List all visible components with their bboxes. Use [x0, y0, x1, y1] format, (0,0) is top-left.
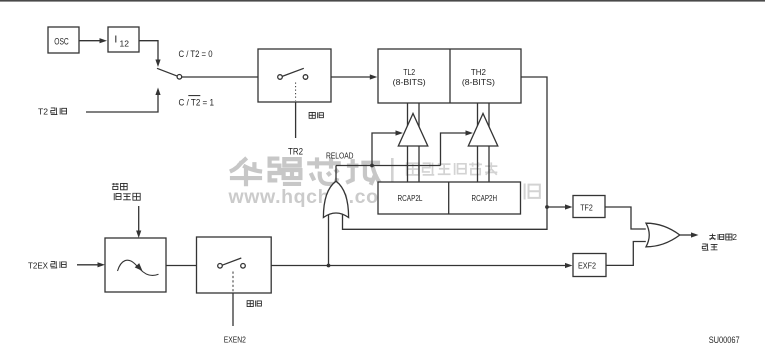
svg-text:TR2: TR2 — [288, 147, 303, 157]
svg-text:C / T2 = 0: C / T2 = 0 — [179, 49, 213, 59]
junction dot overflow to TF2 — [545, 205, 549, 209]
wire TF2 to OR2 — [605, 207, 646, 229]
svg-text:(8-BITS): (8-BITS) — [393, 77, 426, 87]
wire divider to switch, arrow down — [139, 41, 158, 60]
svg-text:OSC: OSC — [54, 36, 69, 47]
switch S3 dashed control link — [232, 272, 234, 292]
wire T2 pin to switch, arrow up — [86, 95, 158, 113]
control label (kongzhi) for TR2 — [309, 112, 315, 118]
switch S2 contacts — [278, 75, 283, 80]
EXEN2 control stub wire — [232, 293, 234, 326]
wire EXF2 to OR2 — [606, 242, 646, 266]
svg-text:SU00067: SU00067 — [709, 335, 740, 346]
TR2 control stub wire — [295, 102, 297, 138]
svg-text:C / T2 = 1: C / T2 = 1 — [179, 97, 215, 107]
svg-text:EXF2: EXF2 — [578, 260, 596, 270]
control gate box TR2 — [258, 49, 331, 102]
flag TF2 box — [573, 196, 605, 218]
register TL2/TH2 box — [378, 49, 521, 103]
junction dot RELOAD branch — [370, 164, 374, 168]
control label (kongzhi) for EXEN2 — [247, 301, 253, 307]
divide-by-12 box — [108, 27, 139, 52]
svg-text:RELOAD: RELOAD — [326, 151, 354, 161]
transition detector curve symbol — [118, 260, 159, 275]
wire TH2 overflow right and down to OR gate input — [343, 77, 548, 229]
RELOAD net wires — [335, 166, 337, 182]
transition detector label — [112, 183, 119, 190]
svg-text:TF2: TF2 — [580, 202, 593, 212]
OSC box — [48, 27, 79, 53]
buffer U1 triangle (TL2 capture) — [398, 114, 428, 147]
wire TH2 legs through buffer to RCAP2H — [477, 103, 479, 182]
switch S1 blade and pole — [157, 68, 178, 76]
svg-text:(8-BITS): (8-BITS) — [462, 77, 495, 87]
wire control gate EXEN2 to EXF2, arrow — [271, 265, 566, 267]
timer2 interrupt label line1 — [709, 234, 715, 240]
watermark separator bar — [391, 158, 394, 204]
svg-text:www.hqchip.com: www.hqchip.com — [228, 186, 397, 208]
svg-text:TH2: TH2 — [471, 67, 486, 77]
wire label to detector box, arrow down — [138, 206, 140, 231]
svg-text:T2: T2 — [38, 107, 48, 117]
svg-text:RCAP2H: RCAP2H — [472, 193, 498, 203]
wire RELOAD end to buffer U2, arrow — [441, 133, 467, 166]
svg-text:RCAP2L: RCAP2L — [398, 193, 423, 203]
wire OR2 output arrow to interrupt — [680, 234, 692, 236]
svg-text:TL2: TL2 — [403, 67, 415, 77]
wire RELOAD branch to buffer U1, arrow — [372, 133, 396, 166]
wire detector to control gate EXEN2 — [166, 265, 197, 267]
wire T2EX pin arrow into detector — [77, 264, 98, 266]
wire OSC to divider with arrow — [79, 40, 100, 42]
OR gate U3 (reload trigger) — [323, 181, 348, 217]
svg-text:EXEN2: EXEN2 — [224, 335, 246, 345]
transition detector box — [105, 238, 166, 292]
svg-text:2: 2 — [733, 233, 738, 242]
watermark slogan line1 — [407, 163, 419, 175]
wire OR1 left input from T2EX line — [328, 213, 330, 266]
register RCAP2L/RCAP2H box — [378, 182, 521, 214]
wire TL2 legs through buffer to RCAP2L — [407, 103, 409, 182]
switch S2 dotted control link — [295, 83, 297, 101]
svg-text:T2EX: T2EX — [28, 260, 48, 270]
top border line — [0, 0, 765, 2]
wire switch to control gate TR2 — [182, 76, 258, 78]
OR gate U4 (interrupt) — [646, 223, 680, 247]
watermark slogan line2 — [404, 183, 420, 200]
watermark big text hqchip — [230, 158, 262, 186]
flag EXF2 box — [573, 254, 606, 277]
timer2 interrupt label line2 — [702, 244, 708, 251]
control gate box EXEN2 — [197, 237, 272, 293]
wire overflow to TF2, arrow — [547, 206, 566, 208]
svg-text:12: 12 — [120, 39, 130, 49]
buffer U2 triangle (TH2 capture) — [468, 114, 498, 147]
junction dot T2EX line to OR1 — [327, 264, 331, 268]
switch S3 contacts — [218, 264, 223, 269]
wire control gate to TL2, arrow — [331, 76, 371, 78]
